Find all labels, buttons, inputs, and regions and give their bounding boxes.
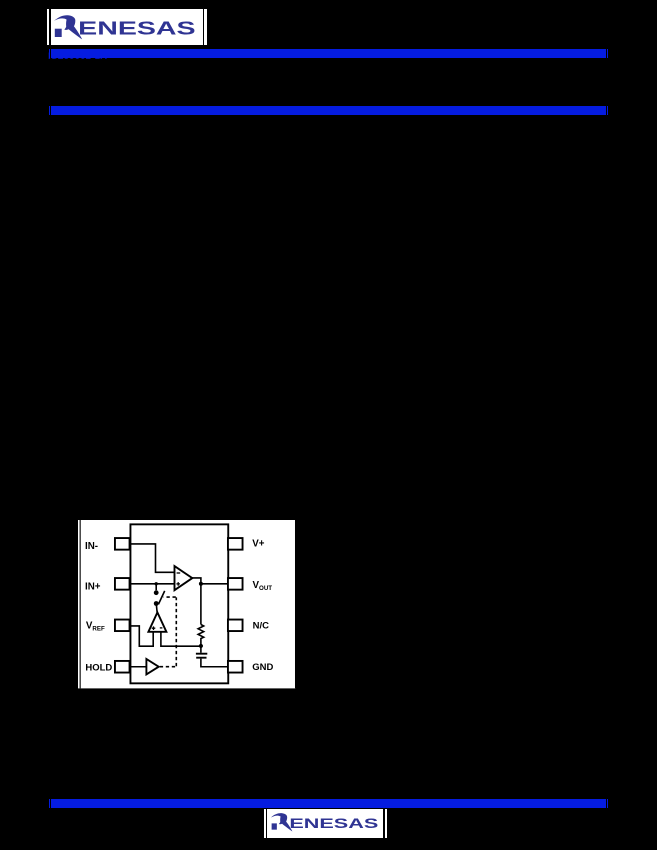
buffer plus mark <box>152 627 156 631</box>
switch upper contact dot <box>154 591 159 596</box>
pin 3 box VREF <box>115 620 130 631</box>
switch lever <box>158 591 164 604</box>
resistor R1 zigzag <box>198 625 204 646</box>
pin 4 box HOLD <box>115 661 130 673</box>
IC body <box>130 525 228 684</box>
footer bar left tick <box>49 799 50 808</box>
svg-text:GND: GND <box>252 662 273 673</box>
header rule bar 2 <box>51 106 607 115</box>
dashed control to lever <box>163 596 175 598</box>
footer logo cell (white box) <box>264 809 387 839</box>
footer rule bar <box>51 799 607 808</box>
pin 5 box GND <box>228 661 243 673</box>
pin 1 box IN- <box>115 538 130 550</box>
dashed control line buffer to switch <box>160 666 176 668</box>
pin 8 box V+ <box>228 538 243 550</box>
Renesas logo (footer) <box>271 813 379 832</box>
buffer minus mark <box>160 627 163 629</box>
pin 2 box IN+ <box>115 578 130 590</box>
header cell right border line <box>203 9 204 46</box>
header cell left border line <box>49 9 50 46</box>
figure white background <box>78 520 296 688</box>
header rule bar 1 <box>51 49 607 58</box>
wire switch lower contact to buffer apex <box>155 605 158 613</box>
node dot RC <box>199 644 203 648</box>
logo square dot <box>55 28 62 36</box>
wire IN- to op-amp inverting input <box>130 544 173 572</box>
wire switch stem from IN+ node <box>155 584 157 590</box>
bar 1 left tick <box>49 49 50 58</box>
bar 2 left tick <box>49 106 50 115</box>
svg-text:ENESAS: ENESAS <box>290 816 379 831</box>
block diagram figure <box>78 520 296 688</box>
footer cell left border line <box>266 809 268 839</box>
op-amp plus mark <box>176 582 180 586</box>
capacitor C1 top plate <box>196 653 207 655</box>
wire VOUT node to pin <box>201 583 228 585</box>
svg-text:V+: V+ <box>252 539 265 550</box>
pin 6 box N/C <box>228 620 243 631</box>
wire buffer right input to RC node <box>161 632 201 646</box>
wire capacitor to GND pin <box>201 659 228 667</box>
footer logo R swoosh <box>271 813 292 831</box>
footer logo square dot <box>272 824 277 830</box>
bar 1 right tick <box>607 49 608 58</box>
wire op-amp output to VOUT node <box>192 578 201 584</box>
svg-text:IN+: IN+ <box>85 582 101 593</box>
svg-text:HOLD: HOLD <box>85 663 112 674</box>
svg-text:IN-: IN- <box>85 541 98 552</box>
wire IN+ to op-amp non-inverting input <box>130 583 173 585</box>
pin 7 box VOUT <box>228 578 243 590</box>
Renesas logo (header) <box>54 15 196 40</box>
logo R swoosh <box>54 15 82 39</box>
wire node to capacitor <box>200 646 202 653</box>
op-amp minus mark <box>177 572 181 574</box>
HOLD buffer A3 <box>146 659 158 674</box>
node dot VOUT <box>199 582 203 586</box>
wire HOLD pin to buffer <box>130 666 146 668</box>
node dot IN+ junction <box>154 582 157 585</box>
svg-text:ENESAS: ENESAS <box>79 18 196 38</box>
wire VREF pin to buffer left input <box>130 626 153 646</box>
wire VOUT node down to resistor <box>200 584 202 625</box>
figure right border line <box>295 520 296 688</box>
dashed control vertical <box>175 598 177 667</box>
capacitor C1 bottom plate <box>196 657 206 659</box>
svg-text:N/C: N/C <box>253 621 269 632</box>
switch lower contact dot <box>154 601 159 606</box>
footer bar right tick <box>607 799 608 808</box>
bar 2 right tick <box>607 106 608 115</box>
VREF buffer A2 <box>148 613 166 632</box>
op-amp U1 <box>174 566 192 590</box>
footer cell right border line <box>383 809 385 839</box>
figure left border line <box>80 520 81 688</box>
header logo cell (white box) <box>47 9 207 46</box>
part number text (mostly hidden behind bar) <box>48 51 107 62</box>
